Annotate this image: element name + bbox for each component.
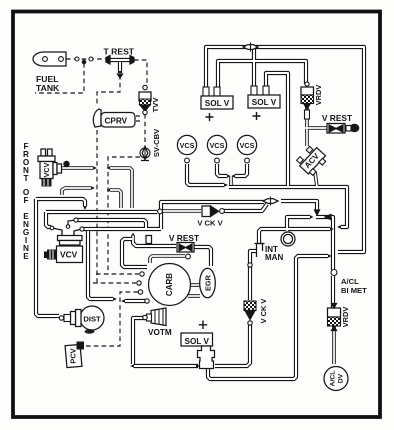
svg-text:SOL V: SOL V (184, 337, 209, 346)
svg-text:A/CL: A/CL (341, 277, 359, 286)
node hose end x113 (113, 297, 117, 301)
svg-text:F: F (23, 196, 28, 205)
DASHED GROUP (35, 59, 147, 346)
INT MAN bracket (257, 244, 263, 258)
TVV (143, 85, 147, 89)
VCK V vertical (248, 263, 252, 267)
VRDV 1 (305, 82, 309, 86)
wire V REST stub up (131, 235, 135, 243)
arrow end x317 (315, 210, 320, 215)
wire left tall loop to DIST (36, 199, 59, 316)
wire VCS3 hose (235, 164, 247, 176)
V REST right (327, 124, 345, 134)
V REST left valve (177, 243, 194, 253)
svg-text:VCS: VCS (240, 141, 255, 150)
EGR (200, 268, 216, 298)
svg-text:VCV: VCV (60, 250, 78, 260)
svg-text:VRDV: VRDV (341, 307, 350, 328)
svg-text:VCV: VCV (42, 162, 51, 177)
T REST fitting (108, 58, 132, 62)
wire run y217 INT MAN (287, 217, 310, 231)
svg-text:DIST: DIST (83, 315, 101, 324)
svg-text:SV-CBV: SV-CBV (152, 128, 161, 157)
wire carb feed column x88 (88, 231, 113, 299)
VCS 3 (237, 135, 256, 154)
HOSES: white core pass (36, 47, 364, 379)
CARB (149, 264, 191, 306)
node hook end x110a (107, 166, 111, 169)
wire run B to VRDV (218, 61, 306, 90)
svg-text:E: E (23, 252, 29, 261)
wire TVV to SV-CBV (144, 114, 146, 146)
node hook end x110b (107, 188, 111, 191)
wire VRDV down to ACV (305, 104, 309, 146)
node tube end x91 (91, 186, 95, 189)
svg-text:VRDV: VRDV (314, 85, 323, 106)
wire VCV elbow (46, 212, 51, 227)
wire run y212 check valve line (46, 210, 157, 214)
wire left stub y199 (36, 199, 85, 206)
wire carb top hose y256 (150, 256, 185, 263)
node tube end x93 (93, 166, 97, 170)
wire VCS link to run (229, 176, 233, 185)
SOL V 2 (251, 86, 257, 95)
svg-text:V REST: V REST (322, 113, 353, 123)
svg-text:A/CL: A/CL (330, 371, 337, 387)
svg-text:TVV: TVV (151, 97, 160, 113)
svg-text:VCS: VCS (210, 141, 225, 150)
node hose end y366 gap tapers (196, 364, 200, 368)
svg-text:DV: DV (338, 373, 345, 383)
SOL V 1 (203, 87, 209, 96)
wire hook x132 (110, 168, 132, 208)
svg-text:CPRV: CPRV (105, 117, 128, 126)
DIST (80, 306, 104, 330)
wire VOTM limb (133, 318, 146, 364)
fuel tank (33, 52, 66, 66)
wire VCK V down to SOLV3 tee (215, 322, 250, 366)
wire hook x121 (110, 190, 121, 208)
wire VCV hose y229 (82, 227, 161, 231)
PCV (65, 344, 82, 367)
svg-text:V CK V: V CK V (197, 219, 223, 228)
SV-CBV valve (144, 146, 146, 149)
wire carb hose B (125, 299, 145, 303)
node connectors on tank line (75, 57, 79, 61)
node hose end x125 (121, 299, 125, 303)
wire ACL column low to ACL DV (332, 326, 336, 364)
SOL V 3 (181, 333, 213, 346)
wire VCV upper tube 2 (62, 188, 91, 195)
wire bracket down to VCK V (250, 251, 256, 300)
svg-text:SOL V: SOL V (252, 98, 277, 107)
wire SV-CBV jog down to carb port y274 (108, 157, 140, 274)
svg-text:PCV: PCV (69, 348, 78, 363)
wire fuel tank to T REST (66, 58, 106, 60)
arrow on y217 (325, 215, 331, 220)
svg-text:CARB: CARB (165, 273, 174, 296)
wire carb to V REST left line (122, 239, 147, 267)
wire carb port y274 (96, 273, 139, 275)
wire run y201 right part with down arrow (281, 201, 317, 211)
svg-text:V REST: V REST (169, 233, 200, 243)
wire EGR link bottom (188, 294, 200, 298)
wire carb port y292 to PCV (86, 292, 138, 346)
wire carb port y283 (93, 282, 136, 284)
svg-text:MAN: MAN (265, 253, 283, 262)
ACL BI MET node (331, 270, 337, 276)
wire run C SOLV2 right to INT MAN column (266, 73, 288, 187)
wire thin link circle to valve (163, 209, 201, 213)
wire tank junction down-left (35, 63, 84, 93)
wire EGR link top (190, 283, 200, 287)
wire T REST bottom to CPRV (97, 75, 120, 106)
wire ACV to run y188 (315, 172, 317, 187)
wire main loop SOLV manifold right side (run A) (206, 47, 364, 252)
svg-text:VCS: VCS (180, 141, 195, 150)
HOSES: black pass (36, 47, 364, 379)
wire VCV hose y221 (76, 220, 146, 229)
node hose end y217 left (310, 215, 314, 219)
wire SOLV2 left drop (252, 47, 256, 92)
wire INT MAN bracket run y229 (259, 229, 330, 243)
wire run y188 across to right drop (229, 187, 347, 227)
svg-text:BI MET: BI MET (341, 286, 367, 295)
node hose end y366 left (130, 364, 134, 368)
node hose end y256 (328, 254, 332, 258)
hose taper ends (83, 166, 341, 368)
wire T REST to TVV (134, 60, 147, 85)
fitting on run y201 (263, 199, 278, 204)
wire ACL column mid (331, 276, 335, 308)
wire stub to valve (133, 241, 176, 246)
CPRV (93, 109, 101, 127)
wire V REST right branch (305, 126, 350, 130)
svg-text:VOTM: VOTM (148, 328, 172, 337)
node stub end x133 top (131, 233, 134, 236)
node hose end vcs2 (227, 174, 231, 177)
VCV lower (52, 228, 62, 236)
wire run y217 to ACL column (316, 217, 333, 270)
svg-text:V CK V: V CK V (259, 299, 268, 324)
svg-text:SOL V: SOL V (205, 99, 230, 108)
wire VCS2 hose (217, 164, 227, 176)
wire CPRV down to carb port (96, 130, 98, 283)
ACV (295, 143, 328, 176)
wire run y201 (161, 202, 264, 229)
node hose end y227 (337, 225, 341, 229)
wire VCV upper tube 1 (59, 166, 93, 170)
A/CL DV (324, 367, 348, 391)
wire check valve to fitting (224, 204, 267, 211)
node hose end vcs3 (232, 174, 236, 177)
INT MAN (281, 232, 295, 246)
svg-text:TANK: TANK (36, 83, 60, 93)
VCS 2 (207, 135, 226, 154)
VRDV 2 (328, 308, 341, 317)
VCV upper (41, 149, 46, 156)
svg-text:T: T (23, 174, 28, 183)
VOTM (151, 308, 166, 326)
svg-text:T REST: T REST (104, 47, 135, 57)
node hose end x224 (224, 183, 228, 187)
check valve mid V CK V (158, 209, 163, 214)
wire SOLV3 bottom long loop (208, 256, 328, 379)
square stub on vrest hose (146, 236, 152, 244)
node hose end y229 right (330, 227, 334, 231)
wire y366 left to VOTM limb (134, 364, 198, 368)
VCS 1 (177, 135, 196, 154)
wire valve to EGR (194, 247, 211, 266)
joint on run A (243, 45, 258, 50)
node stub end y206 (83, 206, 87, 210)
wire VCS1 hose (187, 164, 224, 185)
svg-text:EGR: EGR (204, 274, 213, 291)
